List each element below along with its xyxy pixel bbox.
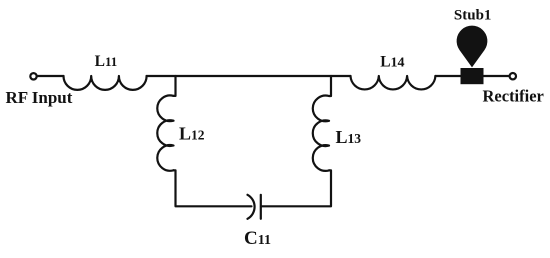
- inductor L13: [313, 96, 329, 171]
- svg-text:RF Input: RF Input: [6, 88, 73, 107]
- stub Stub1 radial balloon: [457, 26, 488, 68]
- svg-text:C11: C11: [244, 228, 271, 249]
- node: rectifier terminal: [510, 73, 516, 79]
- inductor L12: [157, 95, 173, 170]
- capacitor C11 curved plate: [248, 195, 255, 219]
- wire: L14 to stub square: [435, 75, 460, 77]
- wire: top bus L11 to L14: [147, 75, 351, 77]
- svg-text:Stub1: Stub1: [454, 8, 492, 24]
- wire: L12 bottom to bottom bus: [174, 170, 252, 206]
- svg-text:Rectifier: Rectifier: [483, 86, 544, 105]
- wire: terminal to L11: [37, 75, 64, 77]
- wire: stub square to rectifier terminal: [484, 75, 510, 77]
- wire: junction drop to L12: [174, 76, 176, 96]
- node: RF input terminal: [30, 73, 36, 79]
- wire: L13 top junction: [329, 76, 331, 96]
- stub Stub1 square pad: [461, 68, 484, 84]
- inductor L14: [351, 76, 436, 89]
- svg-text:L14: L14: [380, 53, 404, 70]
- svg-text:L12: L12: [179, 123, 205, 143]
- inductor L11: [64, 76, 147, 90]
- capacitor C11 straight plate: [260, 195, 262, 219]
- svg-text:L13: L13: [336, 127, 362, 147]
- wire: C11 to L13 bottom: [261, 170, 331, 206]
- svg-text:L11: L11: [95, 53, 118, 70]
